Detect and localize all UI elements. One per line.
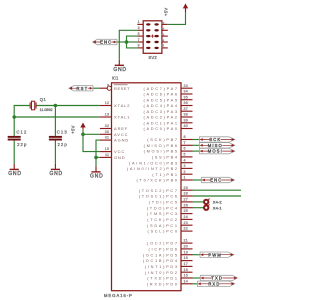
svg-text:MISO: MISO xyxy=(208,143,223,148)
pin 15 (TXD)PD1 xyxy=(147,274,192,281)
wire +5V to AVCC/VCC xyxy=(83,129,100,151)
pin 8 of SV2 xyxy=(161,39,168,42)
wire pin2 to +5V xyxy=(168,13,186,25)
label C13 xyxy=(57,130,68,135)
svg-text:28: 28 xyxy=(184,192,188,196)
pin 9 of SV2 xyxy=(137,44,143,48)
svg-text:4: 4 xyxy=(161,27,165,29)
pin 16 (INT0)PD2 xyxy=(145,268,193,275)
wire XTAL1 net xyxy=(14,116,100,118)
pin 2 (T1)PB1 xyxy=(152,170,192,177)
svg-text:18: 18 xyxy=(184,256,188,260)
svg-text:2: 2 xyxy=(184,170,186,174)
svg-text:5: 5 xyxy=(138,32,140,36)
pad X4-2 xyxy=(193,199,223,205)
svg-text:(INT0)PD2: (INT0)PD2 xyxy=(145,270,179,275)
svg-text:IC1: IC1 xyxy=(112,76,119,81)
svg-text:39: 39 xyxy=(184,118,188,122)
pin 9 RESET (with bubble and overline) xyxy=(100,84,130,91)
pin 5 (SS)PB4 xyxy=(152,153,193,160)
net flag MISO xyxy=(193,143,235,148)
svg-text:(TDI)PC5: (TDI)PC5 xyxy=(149,200,179,205)
svg-text:11.0592: 11.0592 xyxy=(40,108,53,112)
ground (under C12) xyxy=(8,164,22,177)
pin 2 of SV2 xyxy=(161,22,168,25)
svg-text:(MOSI)PB5: (MOSI)PB5 xyxy=(144,149,179,154)
pin 24 (TCK)PC2 xyxy=(147,215,192,222)
value 22p (C12) xyxy=(17,142,27,147)
junction AGND/GND xyxy=(94,156,98,160)
pin 21 (OC2)PD7 xyxy=(147,239,192,246)
svg-text:36: 36 xyxy=(184,101,188,105)
pin 4 (AIN1/OC0)PB3 xyxy=(129,158,192,165)
svg-text:(T0/XCK)PB0: (T0/XCK)PB0 xyxy=(137,178,179,183)
pin 10 VCC xyxy=(100,147,125,154)
op-amp U? main body IC1 MEGA16-P xyxy=(112,83,182,291)
svg-text:(AIN1/OC0)PB3: (AIN1/OC0)PB3 xyxy=(129,160,179,165)
net flag PWM xyxy=(193,252,234,257)
svg-text:33: 33 xyxy=(184,84,188,88)
svg-text:15: 15 xyxy=(184,274,188,278)
svg-text:(RXD)PD0: (RXD)PD0 xyxy=(147,281,179,286)
label SV2 xyxy=(148,55,157,60)
pin 37 (ADC3)PA3 xyxy=(143,107,192,114)
svg-text:5: 5 xyxy=(184,153,186,157)
svg-text:Q1: Q1 xyxy=(40,97,47,102)
net flag RST xyxy=(69,86,100,91)
svg-text:(ADC0)PA0: (ADC0)PA0 xyxy=(143,126,178,131)
svg-text:X4-1: X4-1 xyxy=(213,205,223,210)
svg-text:(ICP)PD6: (ICP)PD6 xyxy=(149,247,179,252)
net flag ENC (PB0) xyxy=(193,177,235,182)
svg-text:GND: GND xyxy=(8,171,22,177)
label Q1 xyxy=(40,97,47,102)
svg-text:AREF: AREF xyxy=(114,126,128,131)
svg-text:SV2: SV2 xyxy=(148,55,157,60)
wire crystal left to XTAL1 xyxy=(14,106,30,118)
svg-text:7: 7 xyxy=(184,141,186,145)
svg-text:29: 29 xyxy=(184,186,188,190)
svg-text:+5V: +5V xyxy=(71,125,76,133)
pin 18 (OC1B)PD4 xyxy=(143,256,193,263)
pin 6 (MOSI)PB5 xyxy=(144,147,193,154)
pin 14 (RXD)PD0 xyxy=(147,279,193,286)
svg-text:(TDO)PC4: (TDO)PC4 xyxy=(147,205,179,210)
svg-text:RESET: RESET xyxy=(114,86,130,91)
svg-text:(TXD)PD1: (TXD)PD1 xyxy=(147,276,179,281)
pin 34 (ADC6)PA6 xyxy=(143,90,192,97)
pin 8 (SCK)PB7 xyxy=(147,135,192,142)
pin 30 AVCC xyxy=(100,130,129,137)
pin 4 of SV2 xyxy=(161,27,168,30)
svg-text:3: 3 xyxy=(184,164,186,168)
capacitor C12 xyxy=(8,136,21,141)
wire GND pin xyxy=(96,156,100,158)
wire C12 lead up xyxy=(13,117,15,136)
svg-text:9: 9 xyxy=(107,84,109,88)
net flag MOSI xyxy=(193,148,235,153)
svg-text:35: 35 xyxy=(184,95,188,99)
capacitor C13 xyxy=(49,136,62,141)
svg-text:8: 8 xyxy=(184,135,186,139)
svg-text:9: 9 xyxy=(138,44,140,48)
ground (under SV2) xyxy=(113,60,127,73)
junction XTAL2/C13 xyxy=(54,104,58,108)
svg-text:GND: GND xyxy=(113,67,127,73)
pin 28 (TOSC1)PC6 xyxy=(139,192,193,199)
svg-text:XTAL1: XTAL1 xyxy=(114,115,130,120)
svg-text:(T1)PB1: (T1)PB1 xyxy=(152,172,178,177)
junction +5V/AVCC xyxy=(81,133,85,137)
svg-text:22p: 22p xyxy=(58,142,68,147)
ground (IC) xyxy=(90,166,104,179)
pin 7 (MISO)PB6 xyxy=(144,141,193,148)
pin 33 (ADC7)PA7 xyxy=(143,84,192,91)
svg-text:20: 20 xyxy=(184,245,188,249)
pin 1 of SV2 xyxy=(137,20,143,24)
pin 7 of SV2 xyxy=(137,38,143,42)
wire XTAL2 net xyxy=(36,105,100,107)
net flag SCK xyxy=(193,137,235,142)
wire PC7 to edge xyxy=(193,189,242,191)
svg-text:(SCL)PC0: (SCL)PC0 xyxy=(147,229,178,234)
svg-text:(INT1)PD3: (INT1)PD3 xyxy=(145,264,179,269)
svg-text:(ADC4)PA4: (ADC4)PA4 xyxy=(143,103,178,108)
svg-text:34: 34 xyxy=(184,90,188,94)
svg-text:27: 27 xyxy=(184,198,188,202)
svg-text:TXD: TXD xyxy=(211,276,223,281)
svg-text:8: 8 xyxy=(161,39,165,41)
pin 6 of SV2 xyxy=(161,33,168,36)
svg-text:C12: C12 xyxy=(16,130,27,135)
svg-text:19: 19 xyxy=(184,250,188,254)
svg-text:(ADC6)PA6: (ADC6)PA6 xyxy=(143,92,178,97)
svg-text:+5V: +5V xyxy=(164,7,169,15)
svg-text:1: 1 xyxy=(138,20,140,24)
pin 20 (ICP)PD6 xyxy=(149,245,193,252)
pin 40 (ADC0)PA0 xyxy=(143,124,192,131)
pin 32 AREF xyxy=(100,124,128,131)
svg-text:(AIN0/INT2)PB2: (AIN0/INT2)PB2 xyxy=(127,166,179,171)
svg-text:XTAL2: XTAL2 xyxy=(114,103,130,108)
pin 35 (ADC5)PA5 xyxy=(143,95,192,102)
svg-text:25: 25 xyxy=(184,209,188,213)
svg-text:1: 1 xyxy=(184,176,186,180)
svg-text:(SDA)PC1: (SDA)PC1 xyxy=(147,223,179,228)
connector SV2 pads and origin cross xyxy=(146,23,159,49)
pin 10 of SV2 xyxy=(161,44,168,48)
pin 5 of SV2 xyxy=(137,32,143,36)
pin 12 XTAL2 xyxy=(100,101,131,108)
svg-text:AGND: AGND xyxy=(114,138,129,143)
svg-text:MEGA16-P: MEGA16-P xyxy=(104,293,133,298)
label C12 xyxy=(16,130,27,135)
pin 38 (ADC2)PA2 xyxy=(143,113,192,120)
wire bracket pins 5-7-9 ENC net xyxy=(127,36,138,48)
svg-text:32: 32 xyxy=(105,124,109,128)
svg-text:7: 7 xyxy=(138,38,140,42)
net flag ENC (left) xyxy=(93,39,127,44)
pin 11 GND xyxy=(100,153,126,160)
wire C13 to ground xyxy=(54,141,56,164)
svg-text:6: 6 xyxy=(161,33,165,35)
svg-text:(ADC2)PA2: (ADC2)PA2 xyxy=(143,115,178,120)
net flag TXD xyxy=(193,275,238,280)
pin 1 (T0/XCK)PB0 xyxy=(137,176,193,183)
svg-text:ENC: ENC xyxy=(210,178,222,183)
svg-text:MOSI: MOSI xyxy=(208,149,223,154)
svg-text:12: 12 xyxy=(105,101,109,105)
svg-text:RST: RST xyxy=(77,86,89,91)
wire pin3 to GND xyxy=(119,30,137,60)
svg-text:14: 14 xyxy=(184,279,188,283)
pin 3 (AIN0/INT2)PB2 xyxy=(127,164,193,171)
svg-text:31: 31 xyxy=(105,136,109,140)
svg-text:RXD: RXD xyxy=(208,281,220,286)
wire C12 to ground xyxy=(13,141,15,164)
pin 17 (INT1)PD3 xyxy=(145,262,193,269)
svg-text:(MISO)PB6: (MISO)PB6 xyxy=(144,143,179,148)
svg-text:3: 3 xyxy=(138,26,140,30)
svg-text:X4-2: X4-2 xyxy=(213,200,223,205)
svg-text:SCK: SCK xyxy=(209,137,221,142)
pin 25 (TMS)PC3 xyxy=(147,209,193,216)
value label MEGA16-P xyxy=(104,293,133,298)
svg-text:(TOSC2)PC7: (TOSC2)PC7 xyxy=(139,188,179,193)
junction ENC node xyxy=(125,40,129,44)
svg-text:GND: GND xyxy=(114,155,126,160)
svg-text:23: 23 xyxy=(184,221,188,225)
svg-text:VCC: VCC xyxy=(114,149,125,154)
pin 23 (SDA)PC1 xyxy=(147,221,192,228)
svg-text:ENC: ENC xyxy=(100,40,112,45)
pin 3 of SV2 xyxy=(137,26,143,30)
value 11.0592 xyxy=(40,108,53,112)
svg-text:(ADC5)PA5: (ADC5)PA5 xyxy=(143,97,178,102)
svg-text:PWM: PWM xyxy=(208,252,222,257)
svg-text:40: 40 xyxy=(184,124,188,128)
svg-text:37: 37 xyxy=(184,107,188,111)
svg-text:17: 17 xyxy=(184,262,188,266)
ground (under C13) xyxy=(49,164,63,177)
pin 26 (TDO)PC4 xyxy=(147,203,193,210)
svg-text:30: 30 xyxy=(105,130,109,134)
svg-text:(OC1A)PD5: (OC1A)PD5 xyxy=(143,252,179,257)
svg-text:10: 10 xyxy=(161,44,165,48)
svg-text:4: 4 xyxy=(184,158,186,162)
svg-text:6: 6 xyxy=(184,147,186,151)
svg-text:21: 21 xyxy=(184,239,188,243)
svg-text:(ADC3)PA3: (ADC3)PA3 xyxy=(143,109,178,114)
wire to ground symbol xyxy=(95,157,97,166)
svg-text:(TMS)PC3: (TMS)PC3 xyxy=(147,211,179,216)
svg-text:(SCK)PB7: (SCK)PB7 xyxy=(147,137,179,142)
junction XTAL1/C12 xyxy=(12,115,16,119)
svg-text:GND: GND xyxy=(90,174,104,180)
svg-text:AVCC: AVCC xyxy=(114,132,128,137)
svg-text:24: 24 xyxy=(184,215,188,219)
svg-text:2: 2 xyxy=(161,22,165,24)
pin 36 (ADC4)PA4 xyxy=(143,101,192,108)
svg-text:11: 11 xyxy=(105,153,109,157)
connector SV2 body xyxy=(143,21,162,54)
svg-text:(ADC7)PA7: (ADC7)PA7 xyxy=(143,86,178,91)
wire AGND to GND xyxy=(96,140,100,157)
crystal Q1 xyxy=(30,101,36,110)
svg-text:(OC1B)PD4: (OC1B)PD4 xyxy=(143,258,179,263)
svg-text:22: 22 xyxy=(184,227,188,231)
label IC1 xyxy=(112,76,119,81)
svg-text:38: 38 xyxy=(184,113,188,117)
pin 22 (SCL)PC0 xyxy=(147,227,192,234)
svg-text:22p: 22p xyxy=(17,142,27,147)
svg-text:26: 26 xyxy=(184,203,188,207)
svg-text:(ADC1)PA1: (ADC1)PA1 xyxy=(143,120,178,125)
svg-text:(TOSC1)PC6: (TOSC1)PC6 xyxy=(139,194,179,199)
svg-text:(SS)PB4: (SS)PB4 xyxy=(152,155,179,160)
wire C13 lead up xyxy=(54,106,56,136)
+5V supply (AVCC) xyxy=(71,123,86,134)
svg-text:GND: GND xyxy=(49,171,63,177)
pin 29 (TOSC2)PC7 xyxy=(139,186,193,193)
net flag RXD xyxy=(193,281,235,286)
pad X4-1 xyxy=(193,204,223,210)
svg-text:13: 13 xyxy=(105,113,109,117)
svg-text:C13: C13 xyxy=(57,130,68,135)
wire PC6 to edge xyxy=(193,195,242,197)
pin 13 XTAL1 xyxy=(100,113,131,120)
svg-text:10: 10 xyxy=(105,147,109,151)
value 22p (C13) xyxy=(58,142,68,147)
svg-text:(TCK)PC2: (TCK)PC2 xyxy=(147,217,179,222)
svg-text:(OC2)PD7: (OC2)PD7 xyxy=(147,241,179,246)
+5V supply (top) xyxy=(164,3,189,16)
pin 19 (OC1A)PD5 xyxy=(143,250,193,257)
pin 31 AGND xyxy=(100,136,129,143)
svg-text:16: 16 xyxy=(184,268,188,272)
pin 27 (TDI)PC5 xyxy=(149,198,193,205)
pin 39 (ADC1)PA1 xyxy=(143,118,192,125)
